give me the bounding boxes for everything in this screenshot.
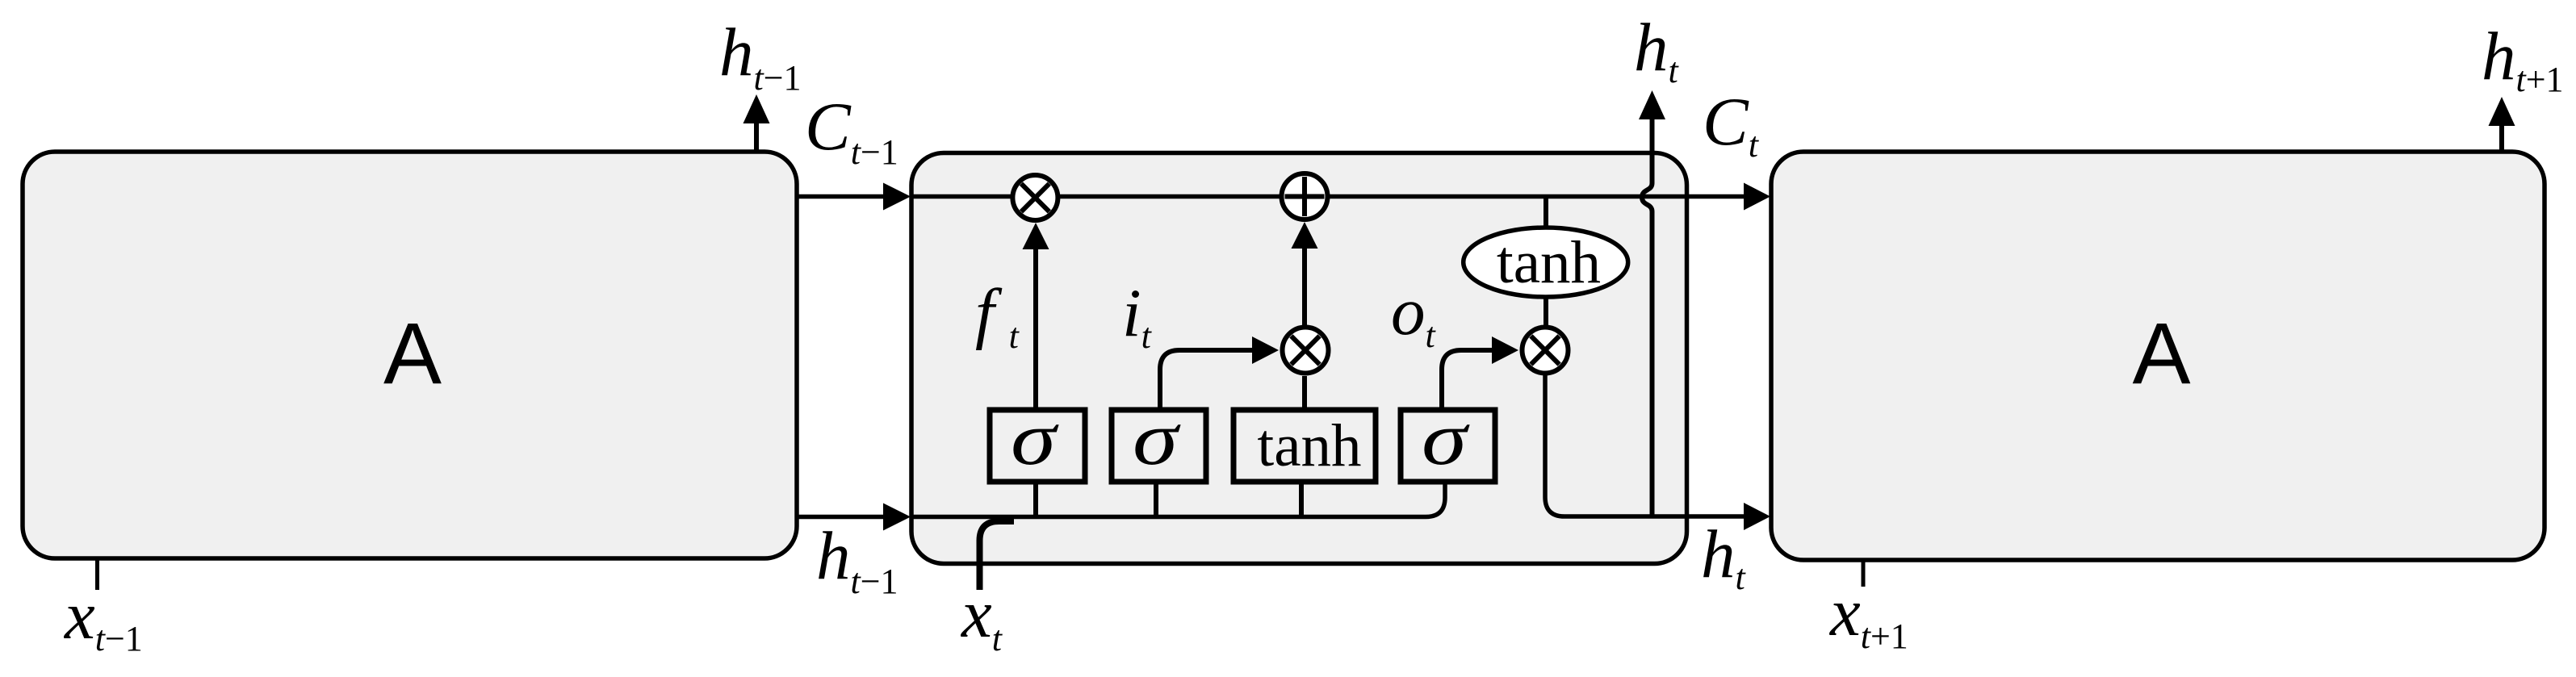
stem sigma2 to h line bbox=[1154, 482, 1158, 519]
arrow C_t-1 bbox=[797, 183, 911, 211]
i_t path sigma2 into otimes2 bbox=[1160, 336, 1279, 410]
svg-text:A: A bbox=[383, 304, 442, 402]
LSTM cell body bbox=[911, 153, 1687, 564]
stem sigma1 to h line bbox=[1033, 482, 1038, 519]
svg-text:σ: σ bbox=[1133, 397, 1181, 481]
sigma box 1 bbox=[990, 410, 1085, 482]
svg-text:A: A bbox=[2132, 304, 2190, 402]
sigma box 2 bbox=[1112, 410, 1206, 482]
line tanh3 to otimes2 bbox=[1302, 376, 1307, 410]
output arrow h_t+1 up bbox=[2489, 97, 2515, 152]
arrow h_t-1 (bottom input) bbox=[797, 504, 911, 531]
tanh box 3 bbox=[1234, 410, 1376, 482]
tanh ellipse bbox=[1464, 228, 1628, 297]
f_t arrow sigma1 up into otimes1 bbox=[1023, 223, 1049, 410]
h input line inside cell, curving up into sigma4 bbox=[911, 482, 1445, 517]
h_t branch up with hop over C line bbox=[1639, 90, 1665, 516]
svg-text:σ: σ bbox=[1422, 397, 1470, 481]
C line bbox=[911, 194, 1745, 199]
stem tanh3 to h line bbox=[1299, 482, 1304, 519]
output arrow h_t-1 up bbox=[743, 94, 770, 152]
otimes2 input multiply bbox=[1283, 328, 1329, 374]
tick x_t-1 bbox=[95, 558, 99, 590]
tick x_t+1 bbox=[1862, 560, 1866, 587]
o_t path sigma4 into otimes3 bbox=[1442, 336, 1518, 410]
x_t input line joining h line bbox=[980, 521, 1015, 590]
arrow otimes2 up into oplus bbox=[1292, 222, 1318, 325]
sigma box 4 bbox=[1401, 410, 1495, 482]
block A (t+1) bbox=[1771, 152, 2545, 560]
arrow C_t into right block bbox=[1744, 183, 1770, 211]
svg-text:tanh: tanh bbox=[1257, 412, 1361, 479]
block A (t-1) bbox=[23, 152, 797, 558]
oplus add bbox=[1282, 173, 1328, 219]
line C down to tanh ellipse bbox=[1544, 199, 1548, 229]
otimes1 forget multiply bbox=[1012, 175, 1058, 220]
otimes3 output multiply bbox=[1523, 328, 1569, 374]
line ellipse to otimes3 bbox=[1544, 297, 1548, 328]
svg-text:tanh: tanh bbox=[1497, 229, 1601, 296]
h out path from otimes3 to right block bbox=[1545, 373, 1770, 530]
